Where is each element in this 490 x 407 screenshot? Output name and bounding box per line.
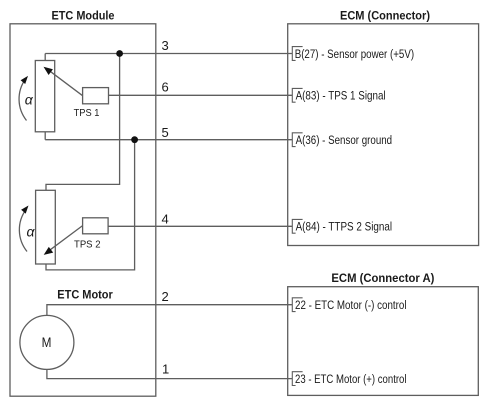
wire 5 sensor ground — [45, 139, 292, 141]
junction dot node sensor power — [116, 50, 123, 57]
wiper arrow line TPS1 — [48, 69, 83, 95]
svg-text:22 - ETC Motor (-) control: 22 - ETC Motor (-) control — [295, 298, 407, 312]
svg-text:A(83) - TPS 1 Signal: A(83) - TPS 1 Signal — [296, 89, 386, 103]
svg-text:2: 2 — [162, 289, 169, 304]
potentiometer TPS2 body — [36, 190, 56, 264]
pin bracket 23 — [292, 372, 302, 386]
ETC Module box — [10, 24, 156, 396]
wire 4 TPS2 signal — [108, 225, 292, 227]
pin bracket 22 — [292, 298, 302, 312]
svg-text:M: M — [42, 335, 52, 350]
wire 3 sensor power — [45, 53, 292, 55]
svg-text:ECM (Connector): ECM (Connector) — [340, 8, 430, 22]
svg-text:A(84) - TTPS 2 Signal: A(84) - TTPS 2 Signal — [296, 220, 393, 234]
potentiometer TPS1 body — [35, 61, 54, 132]
rotation arc alpha1 — [19, 79, 26, 121]
wire ground branch to pot2 — [46, 140, 135, 270]
arrowhead wiper TPS1 — [44, 67, 53, 75]
pin bracket B(27) — [292, 47, 302, 386]
pin bracket A(83) — [292, 88, 302, 102]
svg-text:ETC Module: ETC Module — [52, 9, 115, 23]
junction dot node sensor ground — [131, 136, 138, 143]
ECM (Connector A) box U2 — [288, 287, 479, 396]
TPS 1 sensor box — [83, 88, 109, 104]
wire power branch to pot2 — [46, 54, 120, 191]
wire 2 motor minus — [47, 305, 292, 316]
svg-text:4: 4 — [162, 211, 169, 226]
wiper arrow line TPS2 — [48, 226, 83, 252]
svg-text:α: α — [25, 92, 34, 108]
svg-text:ECM (Connector A): ECM (Connector A) — [331, 271, 434, 285]
wire pot1 bottom stub — [44, 132, 46, 140]
arrowhead wiper TPS2 — [44, 247, 54, 255]
svg-text:B(27) - Sensor power (+5V): B(27) - Sensor power (+5V) — [295, 47, 414, 61]
svg-text:3: 3 — [162, 38, 169, 53]
rotation arc alpha2 — [19, 210, 27, 252]
svg-text:5: 5 — [162, 125, 169, 140]
svg-text:ETC Motor: ETC Motor — [57, 288, 113, 302]
wire 1 motor plus — [47, 369, 292, 378]
TPS 2 sensor box — [83, 218, 109, 234]
svg-text:6: 6 — [162, 80, 169, 95]
ECM (Connector) box U1 — [288, 24, 479, 246]
pin bracket A(84) — [292, 219, 302, 233]
svg-text:23 - ETC Motor (+) control: 23 - ETC Motor (+) control — [295, 372, 407, 386]
wire pot1 top stub — [44, 54, 46, 61]
svg-text:α: α — [27, 224, 36, 240]
wire 6 TPS1 signal — [109, 94, 293, 96]
pin bracket A(36) — [292, 133, 302, 147]
svg-text:TPS 2: TPS 2 — [74, 239, 101, 251]
motor M circle — [20, 315, 74, 369]
svg-text:TPS 1: TPS 1 — [74, 107, 100, 119]
svg-text:A(36) - Sensor ground: A(36) - Sensor ground — [296, 133, 393, 147]
svg-text:1: 1 — [162, 361, 169, 376]
arrowhead arc2 — [21, 206, 28, 214]
arrowhead arc1 — [21, 76, 28, 84]
